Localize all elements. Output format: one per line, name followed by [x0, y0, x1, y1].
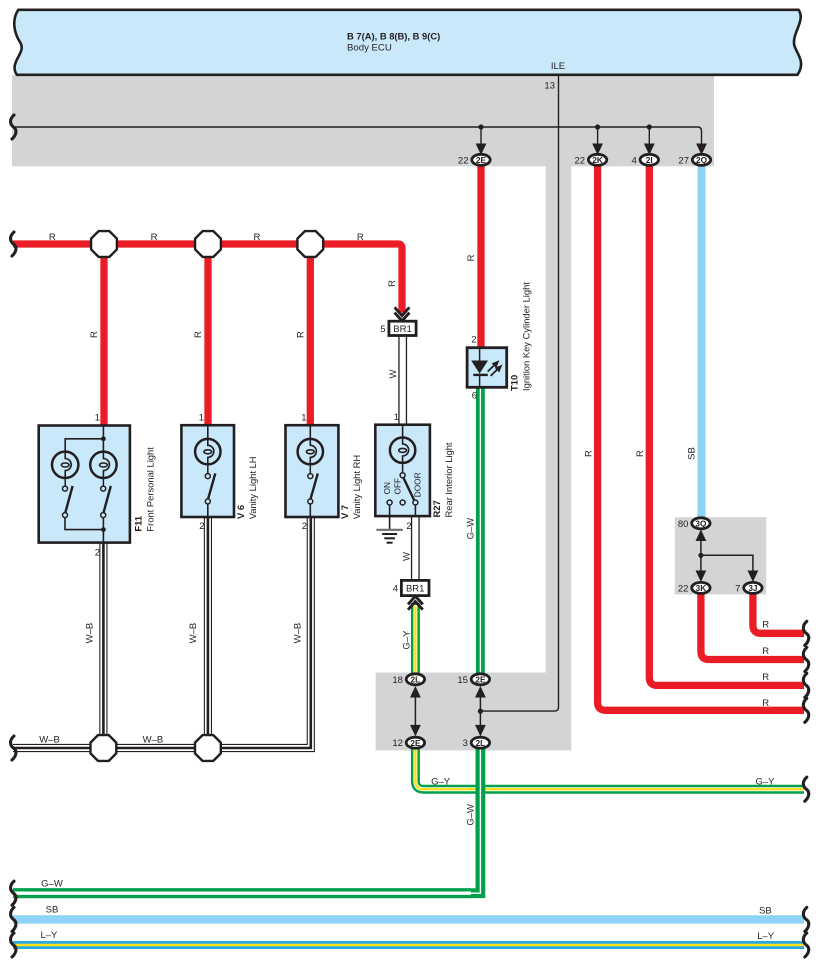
wire SB bus bottom [13, 915, 804, 923]
svg-text:Rear Interior Light: Rear Interior Light [443, 442, 454, 517]
wire W-B from V6 [204, 516, 212, 748]
svg-text:Ignition Key Cylinder Light: Ignition Key Cylinder Light [520, 282, 531, 391]
svg-text:7: 7 [735, 583, 740, 594]
svg-text:G–W: G–W [41, 878, 63, 889]
svg-text:R: R [762, 672, 769, 683]
connector oval 2K pin22 [575, 154, 607, 166]
svg-text:W–B: W–B [188, 623, 199, 644]
svg-text:ILE: ILE [551, 61, 565, 72]
svg-text:3: 3 [463, 738, 468, 749]
svg-text:V 7: V 7 [339, 505, 350, 519]
svg-text:W–B: W–B [292, 623, 303, 644]
gray box right (3Q/3K/3J junction block) [675, 517, 766, 594]
svg-text:Body ECU: Body ECU [347, 42, 392, 53]
svg-text:SB: SB [759, 906, 772, 917]
connector oval 3K pin22 [678, 582, 710, 594]
wire-break mark (G-W bus, left) [11, 881, 16, 905]
connector oval 3Q pin80 [678, 518, 710, 530]
svg-text:R: R [151, 232, 158, 243]
wire-break mark (L-Y bus, left) [11, 933, 16, 957]
svg-text:G–W: G–W [465, 804, 476, 826]
wire G-W from 2L oval to left edge bus [13, 743, 480, 893]
ground below R27 [376, 516, 402, 543]
wire ILE vertical from Body ECU pin 13 down to junction block [480, 76, 558, 712]
wire W-B bus from V7 to left edge [13, 516, 311, 748]
svg-text:W–B: W–B [84, 623, 95, 644]
svg-text:2: 2 [302, 521, 307, 532]
svg-text:R: R [387, 280, 398, 287]
svg-text:2E: 2E [475, 676, 486, 685]
connector oval 2Q pin27 [678, 154, 710, 166]
lamp R27 Rear Interior Light [375, 412, 454, 532]
wire-break mark (R bus, left) [11, 232, 16, 256]
svg-text:2Q: 2Q [696, 156, 708, 165]
svg-text:R: R [89, 331, 100, 338]
connector oval 2L pin3 [463, 737, 490, 749]
svg-text:G–Y: G–Y [401, 630, 412, 650]
connector oval 3J pin7 [735, 582, 762, 594]
svg-text:R: R [583, 450, 594, 457]
svg-text:12: 12 [392, 738, 403, 749]
svg-text:22: 22 [678, 583, 689, 594]
arrow into 2Q [696, 144, 707, 156]
svg-text:W: W [388, 369, 399, 378]
svg-text:2E: 2E [410, 739, 421, 748]
svg-text:OFF: OFF [393, 478, 403, 495]
connector oval 2E pin22 [458, 154, 490, 166]
junction block branch to 3J [701, 555, 753, 580]
connector BR1 top pin5 [389, 321, 416, 335]
svg-text:3Q: 3Q [695, 520, 707, 529]
junction octagon F11/W-B bus [91, 735, 117, 761]
wire-break mark (R 2K branch, right) [803, 698, 808, 722]
svg-text:W–B: W–B [39, 735, 60, 746]
svg-text:15: 15 [457, 675, 468, 686]
svg-text:R: R [762, 646, 769, 657]
junction block arrows 2E-2L right column [479, 688, 481, 734]
svg-text:1: 1 [394, 412, 399, 423]
wire thin bus line inside gray band [12, 127, 702, 144]
svg-text:DOOR: DOOR [412, 472, 422, 497]
svg-text:2K: 2K [592, 156, 603, 165]
svg-text:Vanity Light LH: Vanity Light LH [247, 456, 258, 519]
svg-text:13: 13 [544, 81, 555, 92]
svg-text:G–Y: G–Y [755, 776, 775, 787]
svg-text:SB: SB [686, 447, 697, 460]
svg-text:1: 1 [199, 413, 204, 424]
svg-text:R: R [49, 232, 56, 243]
connector BR1 bottom pin4 [401, 580, 429, 595]
svg-text:ON: ON [382, 482, 392, 494]
wire red 3J to right edge [753, 588, 804, 633]
svg-text:R27: R27 [431, 500, 442, 517]
connector oval 2L pin18 [392, 674, 424, 686]
junction octagon V7/red bus [297, 231, 323, 257]
svg-text:6: 6 [472, 391, 477, 402]
svg-text:22: 22 [458, 155, 469, 166]
svg-text:G–W: G–W [465, 518, 476, 540]
page connector chevrons below BR1 bottom [408, 596, 423, 610]
svg-text:2: 2 [471, 334, 476, 345]
wire L-Y bus bottom [13, 941, 804, 949]
wire-break mark (L-Y bus, right) [803, 933, 808, 957]
svg-text:3K: 3K [696, 584, 707, 593]
svg-text:Front Personal Light: Front Personal Light [145, 447, 156, 532]
lamp V6 Vanity Light LH [181, 413, 257, 533]
connector oval 2E pin15 [457, 674, 489, 686]
wire red 2E to T10 [477, 160, 484, 349]
lamp V7 Vanity Light RH [286, 413, 362, 533]
wire-break mark (SB bus, right) [803, 907, 808, 931]
svg-text:R: R [357, 232, 364, 243]
wire G-Y BR1 to 2L oval [411, 603, 420, 679]
svg-text:W: W [401, 552, 412, 561]
svg-text:2E: 2E [476, 156, 487, 165]
node junction dots on band bus [478, 124, 483, 129]
wire red 2I to right edge [649, 160, 804, 685]
svg-text:R: R [635, 450, 646, 457]
wire red drop to F11 [100, 244, 107, 426]
svg-text:2: 2 [406, 521, 411, 532]
svg-text:R: R [762, 619, 769, 630]
svg-text:3J: 3J [748, 584, 757, 593]
junction octagon V6/red bus [195, 231, 221, 257]
wire W-B from F11 [99, 542, 107, 748]
wire SB 2Q to 3Q [698, 160, 706, 518]
svg-text:R: R [253, 232, 260, 243]
LED T10 Ignition Key Cylinder Light [467, 282, 531, 402]
svg-text:2L: 2L [411, 676, 421, 685]
wire-break mark (R 2I branch, right) [803, 673, 808, 697]
svg-text:Vanity Light RH: Vanity Light RH [351, 455, 362, 519]
gray strip ILE vertical [546, 166, 572, 673]
svg-text:V 6: V 6 [235, 505, 246, 519]
svg-text:R: R [295, 331, 306, 338]
arrow into 2I [648, 127, 650, 146]
svg-text:R: R [466, 254, 477, 261]
page connector chevrons above BR1 top [395, 307, 410, 321]
wire-break mark (R 3J branch, right) [803, 621, 808, 645]
svg-text:27: 27 [678, 155, 689, 166]
junction octagon F11/red bus [91, 231, 117, 257]
svg-text:T10: T10 [508, 375, 519, 391]
wire-break mark (SB bus, left) [11, 907, 16, 931]
svg-text:1: 1 [95, 413, 100, 424]
svg-text:SB: SB [46, 904, 59, 915]
node junction dot ILE [478, 709, 483, 714]
wire red drop to V7 [307, 244, 314, 426]
wire G-Y from 2E oval to right edge [415, 743, 804, 789]
gray box middle (2L/2E junction block) [376, 673, 572, 751]
svg-text:18: 18 [392, 675, 403, 686]
svg-text:BR1: BR1 [393, 324, 411, 335]
lamp F11 Front Personal Light [39, 413, 156, 559]
arrow into 2E [480, 127, 482, 146]
svg-text:G–Y: G–Y [431, 776, 451, 787]
wire red main bus with drop to BR1 [13, 244, 402, 313]
arrow into 2K [597, 127, 599, 146]
junction block arrows 2L-2E left column [414, 688, 416, 734]
svg-text:22: 22 [575, 155, 586, 166]
svg-text:2: 2 [199, 521, 204, 532]
svg-text:4: 4 [393, 584, 398, 595]
svg-text:4: 4 [632, 155, 637, 166]
svg-text:2: 2 [95, 548, 100, 559]
junction block arrows 3Q column [700, 531, 702, 580]
svg-text:R: R [193, 331, 204, 338]
wire W BR1 to R27 pin1 [398, 335, 407, 426]
wire red 2K to right edge [598, 160, 804, 710]
svg-text:2I: 2I [646, 156, 653, 165]
connector oval 2E pin12 [392, 737, 424, 749]
junction octagon V6/W-B bus [195, 735, 221, 761]
wire-break mark (G-Y bus, right) [803, 777, 808, 801]
wire red 3K to right edge [701, 588, 804, 660]
svg-text:F11: F11 [133, 516, 144, 532]
svg-text:BR1: BR1 [406, 584, 424, 595]
svg-text:B 7(A), B 8(B), B 9(C): B 7(A), B 8(B), B 9(C) [347, 31, 440, 42]
svg-text:L–Y: L–Y [40, 930, 58, 941]
svg-text:1: 1 [301, 413, 306, 424]
gray shield band top [12, 75, 714, 166]
Body ECU box B7(A),B8(B),B9(C) [14, 10, 801, 75]
connector oval 2I pin4 [632, 154, 659, 166]
svg-text:5: 5 [380, 324, 385, 335]
wire red drop to V6 [204, 244, 211, 426]
svg-text:2L: 2L [476, 739, 486, 748]
svg-text:L–Y: L–Y [757, 931, 775, 942]
wire-break mark (W-B bus, left) [11, 736, 16, 760]
wire W R27 pin2 to BR1 [411, 515, 420, 581]
svg-text:R: R [762, 698, 769, 709]
svg-text:W–B: W–B [143, 735, 164, 746]
svg-text:80: 80 [678, 519, 689, 530]
wire-break mark (R 3K branch, right) [803, 648, 808, 672]
wire-break mark (shield bus, left) [11, 115, 16, 139]
wire G-W T10 to 2E oval [476, 387, 485, 679]
